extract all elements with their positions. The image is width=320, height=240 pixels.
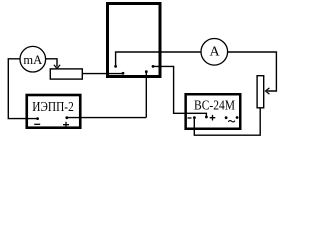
svg-text:ИЭПП-2: ИЭПП-2 <box>32 100 74 115</box>
svg-text:mA: mA <box>23 53 42 67</box>
svg-text:А: А <box>210 45 221 60</box>
svg-text:ВС-24М: ВС-24М <box>194 99 235 114</box>
